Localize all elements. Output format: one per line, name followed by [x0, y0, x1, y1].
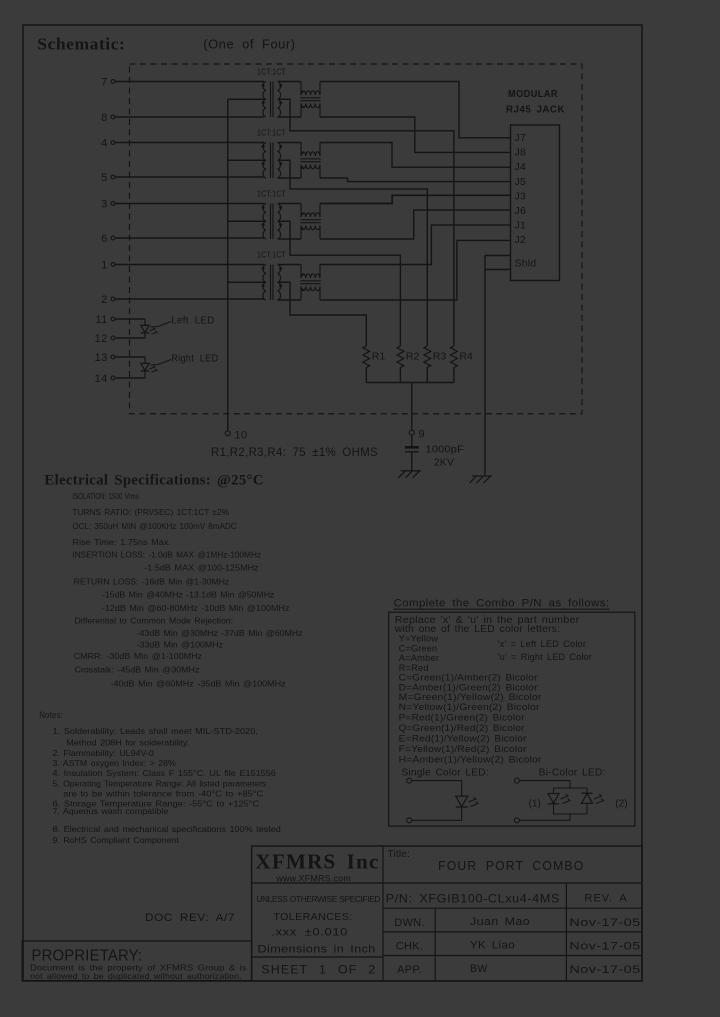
transformer T3: [262, 204, 283, 240]
wire secondary center tap T2 to resistor: [278, 160, 428, 346]
svg-text:9. RoHS Compliant Component: 9. RoHS Compliant Component: [53, 835, 180, 845]
svg-text:Left LED: Left LED: [171, 316, 214, 327]
svg-text:RJ45 JACK: RJ45 JACK: [506, 105, 565, 116]
transformer T4 label 1CT:1CT: [257, 250, 286, 260]
wire center-tap bus to node 10: [227, 99, 229, 431]
svg-text:1CT:1CT: 1CT:1CT: [257, 67, 286, 77]
svg-text:DWN.: DWN.: [394, 917, 425, 929]
wire shield to ground: [484, 256, 486, 477]
node 10: [225, 430, 247, 442]
svg-text:2KV: 2KV: [434, 457, 454, 469]
wire bus to node 9: [411, 383, 413, 431]
svg-text:INSERTION LOSS: -1.0dB MAX @1M: INSERTION LOSS: -1.0dB MAX @1MHz-100MHz: [72, 549, 261, 559]
electrical specification text lines: [72, 491, 302, 689]
svg-text:5. Operating Temperature Range: 5. Operating Temperature Range: All list…: [53, 779, 267, 789]
svg-text:-1.5dB MAX @100-125MHz: -1.5dB MAX @100-125MHz: [144, 563, 258, 573]
svg-text:6: 6: [101, 233, 107, 245]
svg-text:RETURN LOSS: -16dB Min @1-30MH: RETURN LOSS: -16dB Min @1-30MHz: [74, 576, 230, 586]
resistor R4: [451, 346, 473, 368]
svg-text:R1: R1: [372, 351, 386, 363]
svg-text:Y=Yellow: Y=Yellow: [399, 634, 439, 644]
ground (shield): [470, 476, 492, 483]
wire pin 4 to transformer: [115, 142, 264, 144]
svg-text:Bi-Color LED:: Bi-Color LED:: [539, 768, 606, 779]
subtitle One of Four: [203, 37, 295, 52]
pin 3: [101, 199, 115, 211]
title cell: [388, 849, 585, 873]
svg-text:J8: J8: [515, 147, 527, 159]
svg-text:Juan Mao: Juan Mao: [470, 916, 530, 928]
svg-text:APP.: APP.: [397, 964, 422, 976]
svg-text:A=Amber: A=Amber: [399, 653, 440, 663]
wire pin 8 to transformer: [115, 116, 264, 118]
svg-text:not allowed to be duplicated w: not allowed to be duplicated without aut…: [30, 972, 242, 981]
wire resistor bottom bus: [366, 382, 454, 384]
svg-text:MODULAR: MODULAR: [508, 89, 558, 100]
rev cell: [584, 893, 627, 905]
svg-text:5: 5: [101, 172, 107, 184]
svg-text:BW: BW: [470, 963, 488, 975]
combo P/N box: [389, 612, 635, 826]
transformer T1 label 1CT:1CT: [257, 67, 286, 77]
svg-text:1: 1: [101, 260, 107, 272]
logo XFMRS Inc: [255, 850, 379, 884]
bi-color LED symbol: [514, 778, 627, 823]
single color LED symbol: [407, 778, 478, 823]
dashed schematic boundary box: [130, 64, 583, 414]
LED D1 left: [115, 319, 157, 338]
row CHK.: [396, 940, 641, 953]
resistor R1: [363, 346, 385, 368]
svg-text:Rise Time: 1.75ns Max.: Rise Time: 1.75ns Max.: [72, 537, 170, 547]
svg-text:7: 7: [101, 77, 107, 89]
pin 12: [95, 333, 115, 345]
wire secondary bottom lead T1: [278, 116, 302, 118]
node 9: [409, 429, 425, 441]
svg-text:11: 11: [95, 314, 107, 326]
svg-text:-43dB Min @30MHz -37dB Min @60: -43dB Min @30MHz -37dB Min @60MHz: [137, 628, 303, 638]
svg-text:Shld: Shld: [515, 258, 537, 270]
svg-text:-33dB Min @100MHz: -33dB Min @100MHz: [137, 639, 223, 649]
svg-text:R4: R4: [459, 351, 473, 363]
wire pin 1 to transformer: [115, 264, 264, 266]
svg-text:3: 3: [101, 199, 107, 211]
svg-text:C=Green: C=Green: [399, 644, 438, 654]
label resistor values: [211, 445, 378, 459]
wire pin 3 to transformer: [115, 203, 264, 205]
svg-text:E=Red(1)/Yellow(2) Bicolor: E=Red(1)/Yellow(2) Bicolor: [399, 734, 527, 744]
svg-text:P=Red(1)/Green(2) Bicolor: P=Red(1)/Green(2) Bicolor: [399, 713, 525, 723]
svg-text:OCL: 350uH MIN @100KHz 100mV 8: OCL: 350uH MIN @100KHz 100mV 8mADC: [72, 521, 236, 531]
wire R3 bottom: [426, 368, 428, 383]
title block table: [252, 846, 642, 981]
jack pin label J6: [515, 205, 527, 217]
svg-text:UNLESS OTHERWISE SPECIFIED: UNLESS OTHERWISE SPECIFIED: [256, 894, 380, 904]
svg-text:Q=Green(1)/Red(2) Bicolor: Q=Green(1)/Red(2) Bicolor: [399, 723, 525, 733]
jack pin label J1: [515, 220, 527, 232]
svg-text:(2): (2): [615, 799, 627, 810]
notes text lines: [53, 726, 282, 845]
wire secondary bottom lead T2: [278, 177, 302, 179]
svg-text:Single Color LED:: Single Color LED:: [401, 768, 489, 779]
jack pin label J2: [515, 234, 527, 246]
wire secondary center tap T1 to resistor: [278, 99, 454, 346]
wire R4 bottom: [453, 368, 455, 383]
wire secondary top lead T2: [278, 142, 302, 144]
jack pin label J8: [515, 147, 527, 159]
wire secondary bottom lead T4: [278, 299, 302, 301]
svg-text:H=Amber(1)/Yellow(2) Bicolor: H=Amber(1)/Yellow(2) Bicolor: [399, 755, 542, 765]
svg-text:Schematic:: Schematic:: [37, 35, 125, 54]
heading Complete the Combo P/N: [394, 598, 610, 610]
label MODULAR RJ45 JACK: [506, 89, 565, 116]
svg-text:-12dB Min @60-80MHz -10dB Min: -12dB Min @60-80MHz -10dB Min @100MHz: [102, 603, 290, 613]
svg-text:J1: J1: [515, 220, 527, 232]
svg-text:D=Amber(1)/Green(2) Bicolor: D=Amber(1)/Green(2) Bicolor: [399, 682, 538, 692]
wire secondary top lead T1: [278, 81, 302, 83]
svg-text:M=Green(1)/Yellow(2) Bicolor: M=Green(1)/Yellow(2) Bicolor: [399, 692, 542, 702]
svg-text:J7: J7: [515, 132, 527, 144]
wire choke L2 bottom output to jack: [320, 178, 511, 182]
svg-text:7. Aqueous wash compatible: 7. Aqueous wash compatible: [53, 806, 169, 816]
svg-text:R=Red: R=Red: [399, 663, 429, 673]
pin 1: [101, 260, 115, 272]
svg-text:1CT:1CT: 1CT:1CT: [257, 128, 286, 138]
svg-text:R2: R2: [406, 351, 420, 363]
pin 14: [95, 373, 115, 385]
svg-text:R1,R2,R3,R4: 75 ±1% OHMS: R1,R2,R3,R4: 75 ±1% OHMS: [211, 445, 378, 459]
svg-text:Method 208H for solderability.: Method 208H for solderability.: [66, 737, 189, 747]
title Schematic: [37, 35, 125, 54]
svg-text:J3: J3: [515, 190, 527, 202]
svg-text:1CT:1CT: 1CT:1CT: [257, 189, 286, 199]
pin 7: [101, 77, 115, 89]
svg-text:13: 13: [95, 352, 108, 364]
pin 11: [95, 314, 114, 326]
wire choke L4 top output to jack: [320, 225, 511, 264]
sheet cell: [261, 965, 376, 977]
pin 5: [101, 172, 115, 184]
jack pin label Shld: [515, 258, 537, 270]
label 1000pF 2KV: [426, 444, 465, 469]
capacitor C1: [405, 447, 419, 452]
svg-text:are to be within tolerance fro: are to be within tolerance from -40°C to…: [63, 789, 263, 799]
svg-text:Crosstalk: -45dB Min @30MHz: Crosstalk: -45dB Min @30MHz: [75, 665, 200, 675]
wire choke L4 bottom output to jack: [320, 240, 511, 300]
label DOC REV: [145, 912, 235, 924]
svg-text:(One of Four): (One of Four): [203, 37, 295, 52]
jack pin label J7: [515, 132, 527, 144]
wire secondary top lead T3: [278, 203, 302, 205]
svg-text:Differential to Common Mode Re: Differential to Common Mode Rejection:: [75, 615, 234, 625]
svg-text:J2: J2: [515, 234, 527, 246]
svg-text:CHK.: CHK.: [396, 941, 423, 953]
transformer T3 label 1CT:1CT: [257, 189, 286, 199]
pin 4: [101, 138, 115, 150]
svg-text:YK Liao: YK Liao: [470, 940, 515, 952]
svg-text:Dimensions in Inch: Dimensions in Inch: [258, 944, 376, 956]
wire pin 6 to transformer: [115, 237, 264, 239]
wire primary center tap T1: [228, 98, 266, 100]
svg-text:ISOLATION: 1500 Vrms: ISOLATION: 1500 Vrms: [72, 491, 138, 501]
svg-text:N=Yellow(1)/Green(2) Bicolor: N=Yellow(1)/Green(2) Bicolor: [399, 702, 540, 712]
svg-text:PROPRIETARY:: PROPRIETARY:: [32, 948, 143, 965]
svg-text:1. Solderability: Leads shall: 1. Solderability: Leads shall meet MIL-S…: [53, 726, 258, 736]
svg-text:Notes:: Notes:: [39, 710, 63, 720]
wire primary center tap T4: [228, 281, 266, 283]
svg-text:Nov-17-05: Nov-17-05: [569, 917, 640, 929]
svg-text:DOC REV: A/7: DOC REV: A/7: [145, 912, 235, 924]
svg-text:XFMRS Inc: XFMRS Inc: [255, 850, 379, 874]
pin 8: [101, 112, 115, 124]
part number cell: [386, 892, 560, 906]
wire capacitor to ground: [411, 452, 413, 471]
svg-text:www.XFMRS.com: www.XFMRS.com: [275, 873, 351, 883]
label Right LED: [151, 354, 219, 366]
ground (capacitor): [399, 471, 421, 478]
svg-text:(1): (1): [529, 799, 541, 810]
resistor R2: [397, 346, 419, 368]
combo box text: [394, 615, 606, 779]
wire choke L2 top output to jack: [320, 143, 511, 168]
wire choke L1 bottom output to jack: [320, 117, 511, 152]
resistor R3: [424, 346, 446, 368]
proprietary text: [30, 948, 247, 981]
svg-text:14: 14: [95, 373, 108, 385]
svg-text:12: 12: [95, 333, 108, 345]
svg-text:2. Flammability: UL94V-0: 2. Flammability: UL94V-0: [53, 748, 155, 758]
wire choke L1 top output to jack: [320, 82, 511, 138]
svg-text:8: 8: [101, 112, 107, 124]
svg-text:C=Green(1)/Amber(2) Bicolor: C=Green(1)/Amber(2) Bicolor: [399, 673, 538, 683]
svg-text:Complete the Combo P/N as foll: Complete the Combo P/N as follows:: [394, 598, 610, 610]
label Left LED: [151, 316, 215, 328]
svg-text:Right LED: Right LED: [171, 354, 218, 365]
svg-text:TURNS RATIO: (PRI/SEC) 1CT:1CT: TURNS RATIO: (PRI/SEC) 1CT:1CT ±2%: [72, 507, 229, 517]
svg-text:1CT:1CT: 1CT:1CT: [257, 250, 286, 260]
wire secondary center tap T3 to resistor: [278, 221, 401, 346]
svg-text:REV. A: REV. A: [584, 893, 627, 905]
wire pin 7 to transformer: [115, 81, 264, 83]
pin 2: [101, 294, 115, 306]
wire R2 bottom: [399, 368, 401, 383]
wire choke L3 top output to jack: [320, 195, 511, 203]
common-mode choke L4: [300, 265, 320, 301]
common-mode choke L2: [300, 143, 320, 179]
transformer T1: [262, 82, 283, 118]
svg-text:-40dB Min @60MHz -35dB Min @10: -40dB Min @60MHz -35dB Min @100MHz: [111, 679, 286, 689]
svg-text:TOLERANCES:: TOLERANCES:: [273, 911, 352, 923]
svg-text:8. Electrical and mechanical s: 8. Electrical and mechanical specificati…: [53, 824, 282, 834]
heading Notes: [39, 710, 63, 720]
svg-text:'x' = Left LED Color: 'x' = Left LED Color: [498, 639, 586, 649]
svg-text:4. Insulation System: Class F: 4. Insulation System: Class F 155°C. UL …: [53, 768, 277, 778]
svg-text:3. ASTM oxygen Index: > 28%: 3. ASTM oxygen Index: > 28%: [53, 758, 177, 768]
svg-text:-15dB Min @40MHz -13.1dB Min @: -15dB Min @40MHz -13.1dB Min @50MHz: [102, 590, 275, 600]
svg-text:10: 10: [235, 430, 248, 442]
svg-text:4: 4: [101, 138, 107, 150]
jack pin label J4: [515, 161, 527, 173]
wire node 9 to capacitor C1: [411, 435, 413, 446]
svg-text:P/N: XFGIB100-CLxu4-4MS: P/N: XFGIB100-CLxu4-4MS: [386, 892, 560, 906]
common-mode choke L1: [300, 82, 320, 118]
tolerance cell text: [256, 894, 380, 956]
wire secondary top lead T4: [278, 264, 302, 266]
svg-text:9: 9: [419, 429, 425, 441]
svg-text:Nov-17-05: Nov-17-05: [569, 964, 640, 976]
svg-text:R3: R3: [433, 351, 447, 363]
RJ45 jack U1: [511, 125, 560, 281]
wire R1 bottom: [365, 368, 367, 383]
wire choke L3 bottom output to jack: [320, 210, 511, 239]
wire pin 5 to transformer: [115, 176, 264, 178]
svg-text:CMRR: -30dB Min @1-100MHz: CMRR: -30dB Min @1-100MHz: [74, 651, 202, 661]
LED D2 right: [115, 357, 157, 378]
svg-text:Title:: Title:: [388, 849, 411, 860]
wire pin 2 to transformer: [115, 298, 264, 300]
jack pin label J3: [515, 190, 527, 202]
svg-text:.xxx ±0.010: .xxx ±0.010: [271, 927, 348, 939]
svg-text:Nov-17-05: Nov-17-05: [569, 941, 640, 953]
row DWN.: [394, 916, 640, 929]
svg-text:J4: J4: [515, 161, 527, 173]
svg-text:J5: J5: [515, 176, 527, 188]
svg-text:F=Yellow(1)/Red(2) Bicolor: F=Yellow(1)/Red(2) Bicolor: [399, 744, 527, 754]
wire primary center tap T3: [228, 220, 266, 222]
transformer T2: [262, 143, 283, 179]
wire secondary bottom lead T3: [278, 238, 302, 240]
svg-text:SHEET 1 OF 2: SHEET 1 OF 2: [261, 965, 376, 977]
common-mode choke L3: [300, 204, 320, 240]
transformer T2 label 1CT:1CT: [257, 128, 286, 138]
svg-text:'u' = Right LED Color: 'u' = Right LED Color: [498, 652, 592, 662]
transformer T4: [262, 265, 283, 301]
svg-text:Electrical Specifications: @25: Electrical Specifications: @25°C: [44, 473, 263, 489]
wire shield stubs: [485, 256, 511, 270]
svg-text:J6: J6: [515, 205, 527, 217]
heading Electrical Specifications: [44, 473, 263, 489]
wire primary center tap T2: [228, 159, 266, 161]
svg-text:FOUR PORT COMBO: FOUR PORT COMBO: [438, 859, 584, 873]
pin 6: [101, 233, 115, 245]
svg-text:1000pF: 1000pF: [426, 444, 465, 456]
svg-text:2: 2: [101, 294, 107, 306]
jack pin label J5: [515, 176, 527, 188]
wire secondary center tap T4 to resistor: [278, 282, 367, 346]
row APP.: [397, 963, 641, 976]
pin 13: [95, 352, 115, 364]
proprietary box: [22, 941, 251, 981]
